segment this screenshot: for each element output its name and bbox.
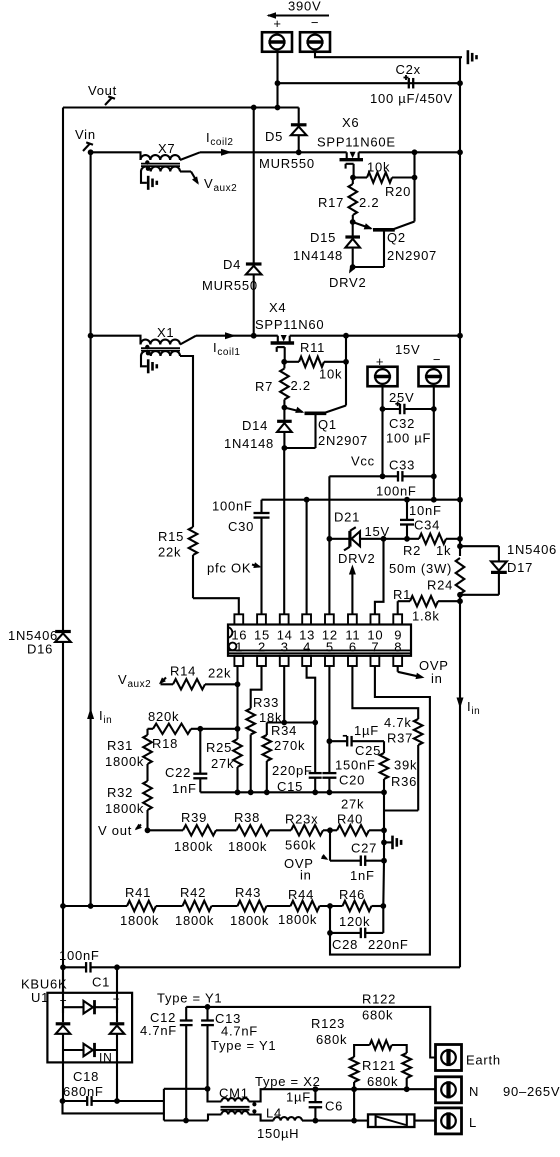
inductor CM1 core xyxy=(221,1106,250,1108)
svg-text:2N2907: 2N2907 xyxy=(318,433,368,448)
node R34 / bottom rail xyxy=(264,789,270,795)
svg-text:R17: R17 xyxy=(318,195,344,210)
svg-text:27k: 27k xyxy=(341,797,364,812)
wire fuse to L terminal xyxy=(414,1120,435,1122)
IC top pin boxes xyxy=(234,614,243,624)
node C18 left xyxy=(60,1098,66,1104)
wire C2x rail xyxy=(278,82,461,84)
svg-text:C18: C18 xyxy=(73,1069,99,1084)
node D21 left xyxy=(327,536,333,542)
resistor R43 xyxy=(238,901,267,911)
wire X1 secondary right to R15 xyxy=(180,356,193,527)
svg-text:D5: D5 xyxy=(265,129,283,144)
svg-text:270k: 270k xyxy=(274,738,305,753)
resistor R23x xyxy=(291,825,323,835)
svg-text:D15: D15 xyxy=(310,230,336,245)
capacitor C22 xyxy=(199,729,201,774)
resistor R38 xyxy=(237,825,270,835)
svg-text:25V: 25V xyxy=(389,390,414,405)
ground X7 xyxy=(147,176,150,190)
arrow Icoil2 xyxy=(221,149,232,156)
node Vout/D4 xyxy=(251,105,257,111)
wire Vout sense line xyxy=(148,829,184,831)
capacitor C32 xyxy=(383,408,401,410)
node R2 / ground bus xyxy=(457,536,463,542)
diode D5 xyxy=(291,123,307,126)
capacitor C25 xyxy=(329,740,347,742)
svg-text:10k: 10k xyxy=(319,367,342,382)
node Vin corner xyxy=(88,149,94,155)
resistor R123 xyxy=(350,1057,359,1082)
svg-text:R20: R20 xyxy=(385,184,411,199)
wire pin9 riser xyxy=(397,601,399,614)
svg-text:Type = Y1: Type = Y1 xyxy=(157,991,222,1006)
svg-text:680k: 680k xyxy=(316,1032,347,1047)
wire Vin vertical (input bus) xyxy=(90,152,92,906)
resistor R15 xyxy=(189,527,198,555)
svg-text:N: N xyxy=(469,1084,479,1099)
svg-text:22k: 22k xyxy=(208,666,231,681)
node rail/15V- xyxy=(431,497,437,503)
svg-text:R23x: R23x xyxy=(285,812,318,827)
svg-text:MUR550: MUR550 xyxy=(202,278,258,293)
node pin3 / R34 line xyxy=(281,720,287,726)
svg-text:820k: 820k xyxy=(148,709,179,724)
node D5 / X6 rail xyxy=(296,149,302,155)
svg-text:1800k: 1800k xyxy=(174,839,213,854)
svg-text:27k: 27k xyxy=(211,756,234,771)
node R123 / N line xyxy=(351,1086,357,1092)
resistor R1 xyxy=(398,600,410,602)
node 15V-/C32 xyxy=(431,406,437,412)
inductor L4 xyxy=(274,1117,303,1121)
svg-text:7: 7 xyxy=(371,640,379,655)
svg-text:DRV2: DRV2 xyxy=(329,275,366,290)
svg-text:R33: R33 xyxy=(253,695,279,710)
svg-text:1.8k: 1.8k xyxy=(412,609,440,624)
wire pin5 column xyxy=(328,666,330,773)
svg-text:CM1: CM1 xyxy=(219,1086,249,1101)
wire L path xyxy=(164,1119,208,1121)
svg-text:X4: X4 xyxy=(269,300,286,315)
node input bus end / R41 line xyxy=(88,903,94,909)
wire X6 rail right segment xyxy=(359,151,460,153)
node C33 right / 15V- lead xyxy=(431,473,437,479)
resistor R2 xyxy=(407,538,419,540)
wire N path upper xyxy=(164,1089,222,1102)
wire R37 bottom to R36 column xyxy=(384,809,418,811)
svg-text:R41: R41 xyxy=(125,885,151,900)
node rail/C34 xyxy=(404,497,410,503)
svg-text:1µF: 1µF xyxy=(354,723,379,738)
wire R15 to pin16 xyxy=(193,598,239,614)
arrow DRV2 (pin 11) xyxy=(351,568,353,614)
mosfet X6 xyxy=(340,158,364,161)
arrow DRV2 (to Q2) xyxy=(350,267,353,272)
node R20/X6 gate net xyxy=(412,175,418,181)
svg-text:Type = Y1: Type = Y1 xyxy=(211,1038,276,1053)
node X6 rail / ground bus xyxy=(457,149,463,155)
inductor CM1 bottom winding xyxy=(221,1111,248,1114)
capacitor C12 xyxy=(185,1007,187,1021)
resistor R32 xyxy=(143,781,152,810)
resistor R121 xyxy=(402,1053,411,1078)
tick Vout xyxy=(105,98,112,105)
svg-text:X1: X1 xyxy=(157,325,174,340)
svg-text:5: 5 xyxy=(326,640,334,655)
node R7 bottom / Q1 emitter xyxy=(282,405,288,411)
resistor R18 (820k) xyxy=(148,728,154,730)
svg-text:6: 6 xyxy=(349,640,357,655)
terminal 15V+ xyxy=(368,367,398,387)
wire left bus vertical upper xyxy=(62,108,64,631)
wire earth line xyxy=(186,1007,435,1058)
resistor R42 xyxy=(183,901,212,911)
bridge diode left xyxy=(56,1022,71,1025)
arrow 390V pointing left xyxy=(268,14,329,16)
svg-text:R122: R122 xyxy=(362,992,396,1007)
svg-text:in: in xyxy=(431,671,443,686)
svg-text:−: − xyxy=(433,352,441,367)
diode D14 xyxy=(283,408,285,420)
polarity dot X7 secondary xyxy=(146,167,150,171)
svg-text:4.7k: 4.7k xyxy=(384,715,412,730)
svg-text:680nF: 680nF xyxy=(63,1084,104,1099)
IC pin-1 dot xyxy=(229,643,237,651)
svg-text:R7: R7 xyxy=(255,379,273,394)
capacitor C30 xyxy=(260,500,262,513)
transformer X1 secondary winding xyxy=(141,351,180,356)
wire bridge AC lead right xyxy=(116,1050,118,1101)
node R33 / bottom rail xyxy=(248,789,254,795)
svg-text:Q2: Q2 xyxy=(387,230,406,245)
svg-text:R121: R121 xyxy=(362,1058,396,1073)
diode D16 xyxy=(55,630,71,633)
mosfet X4 xyxy=(271,341,295,344)
ground top-right xyxy=(467,50,470,64)
bridge inner loop xyxy=(63,1006,83,1008)
svg-text:R40: R40 xyxy=(337,812,363,827)
node X6 rail / R20 pull-up xyxy=(412,149,418,155)
node C13 / N path xyxy=(205,1086,211,1092)
svg-text:10nF: 10nF xyxy=(409,503,442,518)
node R40 right xyxy=(381,827,387,833)
svg-text:4.7nF: 4.7nF xyxy=(221,1024,258,1039)
node X4 rail / ground bus xyxy=(457,333,463,339)
polarity dot X1 primary xyxy=(145,345,149,349)
transformer X1 primary winding xyxy=(141,340,181,345)
capacitor C1 xyxy=(63,966,86,968)
svg-text:2.2: 2.2 xyxy=(291,378,311,393)
svg-text:1µF: 1µF xyxy=(286,1090,311,1105)
svg-text:R46: R46 xyxy=(339,887,365,902)
resistor R17 xyxy=(349,184,358,215)
wire X1 output riser xyxy=(180,336,196,345)
terminal L xyxy=(436,1108,462,1134)
bridge U1 body xyxy=(47,993,132,1063)
resistor R122 (680k) xyxy=(354,1045,370,1057)
svg-text:R2: R2 xyxy=(403,543,421,558)
arrow pfc OK xyxy=(252,565,260,567)
node R17 bottom / Q2 emitter xyxy=(350,219,356,225)
capacitor C33 xyxy=(397,471,399,482)
svg-text:R24: R24 xyxy=(427,578,453,593)
capacitor C13 xyxy=(206,1007,208,1021)
resistor R31 xyxy=(146,729,148,735)
svg-text:SPP11N60: SPP11N60 xyxy=(255,317,324,332)
wire X4 rail right segment xyxy=(290,335,460,337)
node left bus / R41 line xyxy=(60,903,66,909)
svg-text:1nF: 1nF xyxy=(350,868,375,883)
polarity dot CM1 bottom xyxy=(252,1109,256,1113)
wire R41 line left xyxy=(63,905,127,907)
terminal 15V- xyxy=(419,367,449,387)
arrow Vaux2 tick xyxy=(161,678,167,684)
svg-text:D16: D16 xyxy=(27,642,53,657)
svg-text:C27: C27 xyxy=(351,841,377,856)
svg-text:+: + xyxy=(273,16,281,31)
node R25 / bottom rail xyxy=(235,789,241,795)
node input bus / X1 rail xyxy=(88,333,94,339)
transistor Q2 2N2907 xyxy=(373,228,395,232)
svg-text:R25: R25 xyxy=(206,740,232,755)
transformer X7 secondary winding xyxy=(141,167,180,172)
resistor R24 (on ground bus) xyxy=(456,558,465,594)
wire R36 column down to R46 node xyxy=(382,861,385,906)
node C15 / bottom rail xyxy=(312,789,318,795)
node C20 / bottom rail xyxy=(327,789,333,795)
svg-text:R31: R31 xyxy=(107,738,133,753)
IC bottom pin boxes xyxy=(234,656,243,666)
svg-text:220pF: 220pF xyxy=(272,763,313,778)
svg-text:R36: R36 xyxy=(391,774,417,789)
node D4 / X4 rail xyxy=(251,333,257,339)
svg-text:100nF: 100nF xyxy=(376,484,417,499)
svg-text:150µH: 150µH xyxy=(257,1126,299,1141)
svg-text:1800k: 1800k xyxy=(175,913,214,928)
wire 15V- lead xyxy=(433,386,435,499)
node X4 rail / R11 pull-up xyxy=(343,333,349,339)
node R11/X4 gate net xyxy=(343,359,349,365)
svg-text:C6: C6 xyxy=(325,1099,343,1114)
node C18 right xyxy=(114,1098,120,1104)
svg-text:39k: 39k xyxy=(394,758,417,773)
svg-text:1800k: 1800k xyxy=(105,754,144,769)
terminal 390V+ xyxy=(262,32,292,52)
resistor R44 xyxy=(291,901,320,911)
diode D17 xyxy=(491,571,507,574)
wire bridge AC lead left xyxy=(62,1050,64,1101)
wire C25 to R36 xyxy=(383,741,385,753)
wire X7 output riser xyxy=(180,152,200,160)
wire X1 drain rail xyxy=(196,335,278,337)
wire OVP branch down xyxy=(329,830,331,860)
wire bridge - lead top xyxy=(116,967,118,1013)
node rail/ground bus xyxy=(457,497,463,503)
bridge diode top xyxy=(93,1000,96,1014)
node C27 right / R36 column xyxy=(381,858,387,864)
resistor R37 (4.7k) xyxy=(414,719,423,745)
svg-text:100 µF/450V: 100 µF/450V xyxy=(370,91,453,106)
wire pin3 stub xyxy=(283,666,285,723)
wire CM1 top out to N line xyxy=(249,1089,436,1101)
wire bridge + lead top xyxy=(62,967,64,1013)
transistor Q1 2N2907 xyxy=(305,411,327,415)
svg-text:1800k: 1800k xyxy=(278,912,317,927)
svg-text:−: − xyxy=(311,15,319,30)
wire Vout rail corner down to D5 xyxy=(298,108,300,124)
svg-text:1N5406: 1N5406 xyxy=(507,542,557,557)
svg-text:R32: R32 xyxy=(107,785,133,800)
svg-text:Q1: Q1 xyxy=(318,417,337,432)
svg-text:R14: R14 xyxy=(170,664,196,679)
wire D17 branch top xyxy=(460,545,499,547)
svg-text:D14: D14 xyxy=(242,418,268,433)
svg-text:C28: C28 xyxy=(332,937,358,952)
svg-text:8: 8 xyxy=(394,640,402,655)
wire 390V- terminal to top ground xyxy=(315,52,462,58)
ground mid (R40 node) xyxy=(381,840,387,846)
node R46 right / C28 xyxy=(380,903,386,909)
transformer X7 core xyxy=(141,163,180,165)
bridge diode right xyxy=(110,1022,125,1025)
svg-text:C2x: C2x xyxy=(396,62,421,77)
svg-text:MUR550: MUR550 xyxy=(259,156,315,171)
capacitor C15 xyxy=(314,723,316,774)
wire pin10 net (R2 node to pin 10) xyxy=(375,539,384,615)
svg-text:C32: C32 xyxy=(389,416,415,431)
node X4 gate xyxy=(281,359,287,365)
svg-text:680k: 680k xyxy=(362,1008,393,1023)
capacitor C28 xyxy=(329,906,331,933)
wire X1 secondary left to ground xyxy=(141,356,147,366)
ground X1 xyxy=(147,359,150,373)
wire Vin rail to X7 xyxy=(91,152,141,160)
tick Vin xyxy=(83,144,90,151)
svg-text:C33: C33 xyxy=(389,458,415,473)
node left bus / C1 xyxy=(60,964,66,970)
svg-text:1k: 1k xyxy=(436,543,451,558)
wire rail 499 (C30..ground bus) xyxy=(262,499,461,501)
svg-text:120k: 120k xyxy=(339,914,370,929)
polarity dot CM1 top xyxy=(252,1102,256,1106)
svg-text:Earth: Earth xyxy=(466,1053,501,1068)
svg-text:SPP11N60E: SPP11N60E xyxy=(317,135,396,150)
svg-text:4: 4 xyxy=(303,640,311,655)
node R24 bottom / D17 xyxy=(457,592,463,598)
node R1 / ground bus xyxy=(457,598,463,604)
zener D21 xyxy=(329,538,348,540)
node D14 / Q1 base / pin14 net xyxy=(282,445,288,451)
resistor R36 (39k) xyxy=(380,753,389,779)
wire C18 left to lower line xyxy=(63,1101,164,1113)
svg-text:R18: R18 xyxy=(152,736,178,751)
svg-text:560k: 560k xyxy=(285,838,316,853)
svg-text:R15: R15 xyxy=(158,529,184,544)
wire pin6 jog to R37 xyxy=(352,666,418,719)
wire Q1 base node to IC pin 14 xyxy=(283,448,285,614)
svg-text:X6: X6 xyxy=(342,115,359,130)
capacitor C27 xyxy=(330,860,361,862)
svg-text:L: L xyxy=(469,1115,477,1130)
svg-text:2N2907: 2N2907 xyxy=(387,248,437,263)
resistor R34 xyxy=(266,723,268,736)
node R23x / R40 / OVP xyxy=(327,827,333,833)
svg-text:1: 1 xyxy=(235,640,243,655)
terminal Earth xyxy=(436,1045,462,1071)
node R36 / bottom rail xyxy=(381,789,387,795)
node C12 / L path xyxy=(183,1118,189,1124)
node Vout/+390V xyxy=(275,105,281,111)
svg-text:2.2: 2.2 xyxy=(359,195,379,210)
svg-text:C22: C22 xyxy=(165,765,191,780)
wire left bus vertical lower xyxy=(62,642,64,993)
svg-text:150nF: 150nF xyxy=(335,758,376,773)
svg-text:1800k: 1800k xyxy=(228,839,267,854)
svg-text:R38: R38 xyxy=(234,810,260,825)
svg-text:100 µF: 100 µF xyxy=(386,431,431,446)
svg-text:R44: R44 xyxy=(288,887,314,902)
resistor R40 (27k) xyxy=(337,825,369,835)
node C1 right / bridge minus xyxy=(114,964,120,970)
svg-text:C34: C34 xyxy=(414,518,440,533)
wire pin1 column xyxy=(236,666,238,739)
wire C1 rail to ground bus xyxy=(117,966,460,968)
node earth / C13 xyxy=(205,1004,211,1010)
svg-text:V out: V out xyxy=(98,823,132,838)
wire pin4 jog xyxy=(307,666,316,723)
wire 390V+ terminal down to Vout rail xyxy=(276,52,278,108)
svg-text:R39: R39 xyxy=(181,810,207,825)
wire Vout rail xyxy=(63,106,299,108)
svg-text:Type = X2: Type = X2 xyxy=(255,1074,321,1089)
wire ground bus right vertical xyxy=(459,57,461,556)
svg-text:C25: C25 xyxy=(355,743,381,758)
wire X7 secondary right to Vaux2 xyxy=(180,170,191,172)
arrow OVP in (comp) xyxy=(322,856,327,859)
capacitor C6 xyxy=(313,1086,319,1092)
wire CM1 bottom left xyxy=(208,1115,221,1121)
node D15 / Q2 base / DRV2 xyxy=(350,264,356,270)
svg-text:X7: X7 xyxy=(158,141,175,156)
node C2x left (junction on +390V lead) xyxy=(275,80,281,86)
wire R20 pull-up vertical xyxy=(413,152,415,218)
svg-text:Vin: Vin xyxy=(75,127,96,142)
arrow OVP in (pin 8) xyxy=(397,666,399,672)
node R32 / Vout line xyxy=(145,827,151,833)
resistor R33 xyxy=(246,709,255,735)
wire R34 top line xyxy=(267,721,315,723)
svg-text:220nF: 220nF xyxy=(368,937,409,952)
wire L path to fuse xyxy=(302,1120,368,1122)
IC notch xyxy=(228,627,232,638)
svg-text:R11: R11 xyxy=(300,340,325,355)
wire Vcc line (C33 line) xyxy=(329,475,398,477)
inductor CM1 top winding xyxy=(221,1098,248,1101)
wire network bottom rail xyxy=(200,791,384,793)
wire X1 rail from input bus xyxy=(91,336,141,345)
svg-text:Vout: Vout xyxy=(88,83,117,98)
svg-text:D17: D17 xyxy=(507,560,533,575)
capacitor C34 xyxy=(406,500,408,520)
diode D4 xyxy=(246,262,262,265)
transformer X7 primary winding xyxy=(141,155,181,160)
arrow Icoil1 xyxy=(225,332,236,339)
wire 15V+ lead xyxy=(381,386,383,476)
svg-text:2: 2 xyxy=(258,640,266,655)
node R44/R46/C28 xyxy=(327,903,333,909)
capacitor C2x xyxy=(408,78,410,89)
